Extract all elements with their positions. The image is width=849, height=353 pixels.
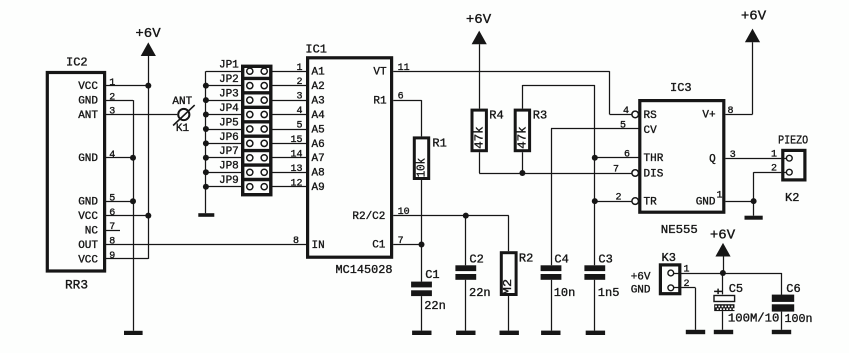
svg-text:14: 14 bbox=[290, 149, 302, 160]
svg-text:A1: A1 bbox=[312, 67, 326, 79]
svg-text:JP4: JP4 bbox=[219, 103, 239, 115]
svg-text:8: 8 bbox=[109, 237, 115, 248]
svg-text:47k: 47k bbox=[473, 126, 487, 149]
svg-text:2: 2 bbox=[296, 77, 302, 88]
svg-text:22n: 22n bbox=[424, 299, 446, 313]
svg-text:4: 4 bbox=[109, 150, 115, 161]
svg-text:2: 2 bbox=[615, 193, 621, 204]
wire R2 to ground bbox=[508, 296, 510, 331]
svg-text:1: 1 bbox=[109, 78, 115, 89]
svg-text:K2: K2 bbox=[785, 191, 799, 205]
IC IC1 MC145028 decoder bbox=[308, 58, 392, 257]
wire down to C1 bbox=[421, 245, 423, 282]
svg-text:6: 6 bbox=[624, 150, 630, 161]
wire IC2 pin6 VCC to +6V rail bbox=[105, 215, 149, 217]
svg-text:JP5: JP5 bbox=[219, 117, 239, 129]
capacitor C6 100n bbox=[772, 295, 794, 302]
junction JP2 bus bbox=[203, 83, 209, 89]
wire JP7 to IC1 A7 bbox=[273, 157, 307, 159]
wire JP8 to IC1 A8 bbox=[273, 172, 307, 174]
ground (C1) bbox=[412, 331, 431, 335]
pin circles JP2 bbox=[247, 83, 253, 89]
wire IC2 pin8 OUT to IC1 IN bbox=[105, 244, 307, 246]
svg-text:7: 7 bbox=[613, 165, 619, 176]
svg-text:M2: M2 bbox=[501, 279, 515, 295]
svg-text:GND: GND bbox=[78, 96, 98, 108]
svg-text:JP2: JP2 bbox=[219, 74, 239, 86]
wire R3 bottom bbox=[522, 152, 524, 173]
svg-text:11: 11 bbox=[398, 63, 410, 74]
ground (C4) bbox=[541, 331, 560, 335]
svg-text:5: 5 bbox=[296, 121, 302, 132]
junction +6V/VCC pin6 bbox=[145, 213, 151, 219]
svg-text:4: 4 bbox=[296, 106, 302, 117]
wire CV to C4 bbox=[551, 128, 639, 130]
svg-text:A5: A5 bbox=[312, 124, 325, 136]
svg-text:JP8: JP8 bbox=[219, 161, 239, 173]
wire K2 pin2 to GND node bbox=[754, 172, 782, 174]
wire IC2 pin1 VCC to +6V rail bbox=[105, 85, 149, 87]
junction R1/C1/pin7 bbox=[419, 242, 425, 248]
wire K3 pin2 to ground bbox=[681, 287, 695, 289]
wire R3 top to timing node bbox=[522, 85, 524, 109]
wire IC2 pin7 NC stub bbox=[105, 230, 121, 232]
svg-text:+6V: +6V bbox=[631, 271, 651, 283]
wire C3 to ground bbox=[594, 280, 596, 331]
svg-text:A7: A7 bbox=[312, 153, 325, 165]
wire C2 to ground bbox=[465, 280, 467, 331]
svg-text:GND: GND bbox=[631, 285, 651, 297]
svg-text:7: 7 bbox=[398, 236, 404, 247]
svg-text:1: 1 bbox=[771, 150, 777, 161]
junction JP3 bus bbox=[203, 97, 209, 103]
svg-text:R2: R2 bbox=[519, 252, 533, 266]
svg-text:V+: V+ bbox=[702, 110, 715, 122]
svg-text:+6V: +6V bbox=[741, 9, 767, 25]
wire JP4 row bbox=[206, 114, 241, 116]
pin circles JP8 bbox=[247, 169, 253, 175]
wire K3 pin1 +6V line bbox=[681, 273, 781, 275]
svg-text:CV: CV bbox=[644, 125, 658, 137]
svg-text:VT: VT bbox=[373, 66, 387, 78]
wire C5 to ground bbox=[722, 311, 724, 330]
wire IC1 VT pin11 to IC3 RS bbox=[393, 71, 609, 73]
junction JP5 bus bbox=[203, 126, 209, 132]
svg-text:A9: A9 bbox=[312, 182, 325, 194]
wire JP8 row bbox=[206, 172, 241, 174]
wire V+ to +6V arrow bbox=[725, 114, 752, 116]
svg-text:R4: R4 bbox=[489, 109, 503, 123]
junction JP4 bus bbox=[203, 112, 209, 118]
wire IC1 R1 pin6 to resistor R1 bbox=[393, 100, 421, 102]
pin circle TR bbox=[632, 198, 639, 205]
ground (IC3 GND) bbox=[745, 216, 763, 220]
svg-text:5: 5 bbox=[109, 193, 115, 204]
svg-text:C3: C3 bbox=[598, 252, 612, 266]
svg-text:10n: 10n bbox=[554, 286, 576, 300]
svg-text:GND: GND bbox=[696, 196, 716, 208]
ground (K3 pin2) bbox=[686, 330, 705, 334]
ground (C3) bbox=[586, 331, 605, 335]
svg-text:IN: IN bbox=[312, 240, 325, 252]
svg-text:C4: C4 bbox=[554, 252, 568, 266]
svg-text:JP1: JP1 bbox=[219, 60, 239, 72]
wire JP5 to IC1 A5 bbox=[273, 129, 307, 131]
svg-text:TR: TR bbox=[644, 197, 658, 209]
pin circles JP1 bbox=[247, 68, 253, 74]
wire JP7 row bbox=[206, 157, 241, 159]
pin circle RS bbox=[632, 111, 639, 118]
svg-text:7: 7 bbox=[109, 222, 115, 233]
wire to ground symbol bbox=[753, 201, 755, 216]
svg-text:C1: C1 bbox=[372, 240, 386, 252]
svg-text:1: 1 bbox=[716, 191, 722, 202]
wire JP1 row bbox=[206, 71, 241, 73]
ground (R2) bbox=[500, 331, 519, 335]
svg-text:A2: A2 bbox=[312, 81, 325, 93]
svg-text:R1: R1 bbox=[432, 137, 446, 151]
wire TR to IC3 bbox=[595, 201, 632, 203]
svg-text:MC145028: MC145028 bbox=[336, 263, 393, 277]
wire C1 to ground bbox=[421, 296, 423, 331]
resistor R3 47k bbox=[515, 110, 529, 151]
svg-text:9: 9 bbox=[109, 251, 115, 262]
ground (C2) bbox=[456, 331, 475, 335]
wire IC3 GND bbox=[725, 201, 753, 203]
svg-text:100n: 100n bbox=[785, 312, 813, 326]
wire JP6 to IC1 A6 bbox=[273, 143, 307, 145]
junction R3 bottom on DIS line bbox=[519, 170, 525, 176]
junction +6V/VCC pin1 bbox=[145, 83, 151, 89]
svg-text:10k: 10k bbox=[415, 158, 429, 178]
svg-text:GND: GND bbox=[78, 153, 98, 165]
wire JP bus to ground bbox=[205, 71, 207, 213]
wire JP2 to IC1 A2 bbox=[273, 85, 307, 87]
wire JP6 row bbox=[206, 143, 241, 145]
svg-text:13: 13 bbox=[290, 164, 302, 175]
wire IC2 pin2 GND bbox=[105, 100, 134, 102]
capacitor C4 10n bbox=[541, 265, 562, 271]
svg-text:JP3: JP3 bbox=[219, 89, 239, 101]
wire +6V node to C5 bbox=[722, 273, 724, 294]
wire R4 bottom to DIS line bbox=[479, 152, 481, 173]
resistor R1 10k bbox=[414, 138, 428, 179]
connector K1 antenna pad bbox=[173, 105, 195, 125]
pin circles JP4 bbox=[247, 111, 253, 117]
svg-text:A3: A3 bbox=[312, 96, 325, 108]
junction JP7 bus bbox=[203, 155, 209, 161]
IC IC3 NE555 timer bbox=[640, 101, 724, 213]
junction GND/K2 pin2 bbox=[751, 198, 757, 204]
svg-text:1: 1 bbox=[296, 63, 302, 74]
wire JP5 row bbox=[206, 129, 241, 131]
svg-text:C1: C1 bbox=[425, 268, 439, 282]
wire arrow to +6V line bbox=[723, 257, 725, 274]
connector K3 supply bbox=[660, 265, 679, 294]
wire Q output to K2 bbox=[725, 158, 781, 160]
wire C4 to ground bbox=[551, 280, 553, 331]
svg-text:K3: K3 bbox=[662, 251, 676, 265]
capacitor C3 1n5 bbox=[584, 265, 605, 271]
svg-text:NC: NC bbox=[85, 225, 99, 237]
pin circles JP7 bbox=[247, 155, 253, 161]
wire R1 bottom to C1/pin7 node bbox=[421, 180, 423, 245]
svg-text:A4: A4 bbox=[312, 110, 326, 122]
ground (C6) bbox=[772, 330, 791, 334]
wire JP3 to IC1 A3 bbox=[273, 100, 307, 102]
resistor R4 47k bbox=[472, 110, 486, 151]
wire IC2 pin9 VCC to +6V rail end bbox=[105, 258, 149, 260]
svg-text:C2: C2 bbox=[469, 252, 483, 266]
svg-text:2: 2 bbox=[684, 279, 690, 290]
resistor R2 M2 bbox=[501, 253, 516, 295]
svg-text:12: 12 bbox=[290, 178, 302, 189]
wire +6V rail left bbox=[148, 56, 150, 259]
svg-text:ANT: ANT bbox=[172, 96, 192, 108]
svg-text:4: 4 bbox=[623, 106, 629, 117]
junction JP8 bus bbox=[203, 169, 209, 175]
svg-text:VCC: VCC bbox=[78, 254, 98, 266]
svg-text:GND: GND bbox=[78, 197, 98, 209]
ground (C5) bbox=[714, 330, 733, 334]
svg-text:RR3: RR3 bbox=[65, 278, 88, 293]
wire JP3 row bbox=[206, 100, 241, 102]
svg-text:6: 6 bbox=[109, 208, 115, 219]
svg-text:NE555: NE555 bbox=[661, 223, 698, 237]
junction GND pin4 bbox=[130, 155, 136, 161]
pin circles JP3 bbox=[247, 97, 253, 103]
wire GND rail left bbox=[133, 100, 135, 331]
pin circle DIS bbox=[632, 170, 639, 177]
junction +6V node at C5 bbox=[720, 270, 726, 276]
IC IC2 RR3 receiver module bbox=[47, 73, 104, 272]
svg-text:JP7: JP7 bbox=[219, 146, 239, 158]
svg-text:22n: 22n bbox=[469, 286, 491, 300]
junction THR bbox=[592, 155, 598, 161]
ground (JP bus) bbox=[198, 213, 214, 217]
pin circles JP5 bbox=[247, 126, 253, 132]
svg-text:47k: 47k bbox=[516, 126, 530, 149]
svg-text:JP6: JP6 bbox=[219, 132, 239, 144]
svg-text:PIEZO: PIEZO bbox=[778, 133, 808, 147]
wire JP2 row bbox=[206, 85, 241, 87]
svg-text:IC3: IC3 bbox=[670, 81, 692, 95]
svg-text:A6: A6 bbox=[312, 139, 325, 151]
capacitor C1 22n bbox=[411, 282, 432, 288]
svg-text:+6V: +6V bbox=[710, 228, 736, 244]
svg-text:C6: C6 bbox=[786, 282, 800, 296]
svg-text:+6V: +6V bbox=[466, 12, 492, 28]
wire C6 to ground bbox=[781, 312, 783, 330]
svg-text:IC2: IC2 bbox=[66, 56, 88, 70]
svg-text:K1: K1 bbox=[176, 123, 190, 135]
junction C2 branch bbox=[463, 213, 469, 219]
wire IC1 C1 pin7 bbox=[393, 244, 421, 246]
svg-text:A8: A8 bbox=[312, 168, 325, 180]
svg-text:10: 10 bbox=[398, 207, 410, 218]
svg-text:VCC: VCC bbox=[78, 81, 98, 93]
svg-text:5: 5 bbox=[620, 121, 626, 132]
svg-text:DIS: DIS bbox=[644, 168, 664, 180]
junction GND pin5 bbox=[130, 198, 136, 204]
pin circles JP6 bbox=[247, 140, 253, 146]
svg-text:3: 3 bbox=[730, 150, 736, 161]
wire +6V line to C6 bbox=[781, 273, 783, 295]
svg-text:+6V: +6V bbox=[135, 26, 161, 42]
connector JP1-JP9 jumper block body bbox=[243, 66, 271, 194]
wire JP9 to IC1 A9 bbox=[273, 186, 307, 188]
svg-text:C5: C5 bbox=[729, 282, 743, 296]
wire JP1 to IC1 A1 bbox=[273, 71, 307, 73]
svg-text:THR: THR bbox=[644, 153, 664, 165]
svg-text:IC1: IC1 bbox=[305, 43, 327, 57]
wire +6V to R4 bbox=[479, 44, 481, 108]
capacitor C2 22n bbox=[455, 265, 476, 271]
wire IC2 pin5 GND bbox=[105, 201, 134, 203]
svg-text:RS: RS bbox=[644, 110, 658, 122]
svg-text:2: 2 bbox=[771, 163, 777, 174]
wire JP9 row bbox=[206, 186, 241, 188]
svg-text:R1: R1 bbox=[373, 95, 387, 107]
junction TR bbox=[592, 198, 598, 204]
svg-text:Q: Q bbox=[709, 153, 716, 165]
wire IC2 pin4 GND bbox=[105, 157, 134, 159]
svg-text:R2/C2: R2/C2 bbox=[352, 211, 385, 223]
svg-text:OUT: OUT bbox=[78, 240, 98, 252]
wire JP4 to IC1 A4 bbox=[273, 114, 307, 116]
capacitor C5 100M/10 electrolytic bbox=[714, 296, 735, 302]
svg-text:2: 2 bbox=[109, 92, 115, 103]
ground (left GND rail) bbox=[124, 331, 143, 335]
svg-text:JP9: JP9 bbox=[219, 175, 239, 187]
svg-text:15: 15 bbox=[290, 135, 302, 146]
svg-text:1n5: 1n5 bbox=[598, 286, 620, 300]
svg-text:3: 3 bbox=[109, 107, 115, 118]
wire C2 top bbox=[465, 216, 467, 266]
wire IC2 pin3 ANT to K1 bbox=[105, 114, 178, 116]
wire IC1 R2/C2 pin10 to R2 bbox=[393, 215, 509, 217]
svg-text:3: 3 bbox=[296, 92, 302, 103]
pin circles JP9 bbox=[247, 184, 253, 190]
junction JP6 bus bbox=[203, 140, 209, 146]
junction JP9 bus bbox=[203, 184, 209, 190]
wire timing node vertical (THR/TR/C3) bbox=[594, 85, 596, 265]
svg-text:ANT: ANT bbox=[78, 110, 98, 122]
connector K2 PIEZO bbox=[783, 150, 805, 180]
svg-text:8: 8 bbox=[728, 106, 734, 117]
wire DIS line to IC3 bbox=[479, 173, 632, 175]
svg-text:VCC: VCC bbox=[78, 211, 98, 223]
svg-text:8: 8 bbox=[293, 236, 299, 247]
svg-text:100M/10: 100M/10 bbox=[728, 312, 780, 326]
wire THR to IC3 bbox=[595, 157, 639, 159]
svg-text:R3: R3 bbox=[533, 109, 547, 123]
